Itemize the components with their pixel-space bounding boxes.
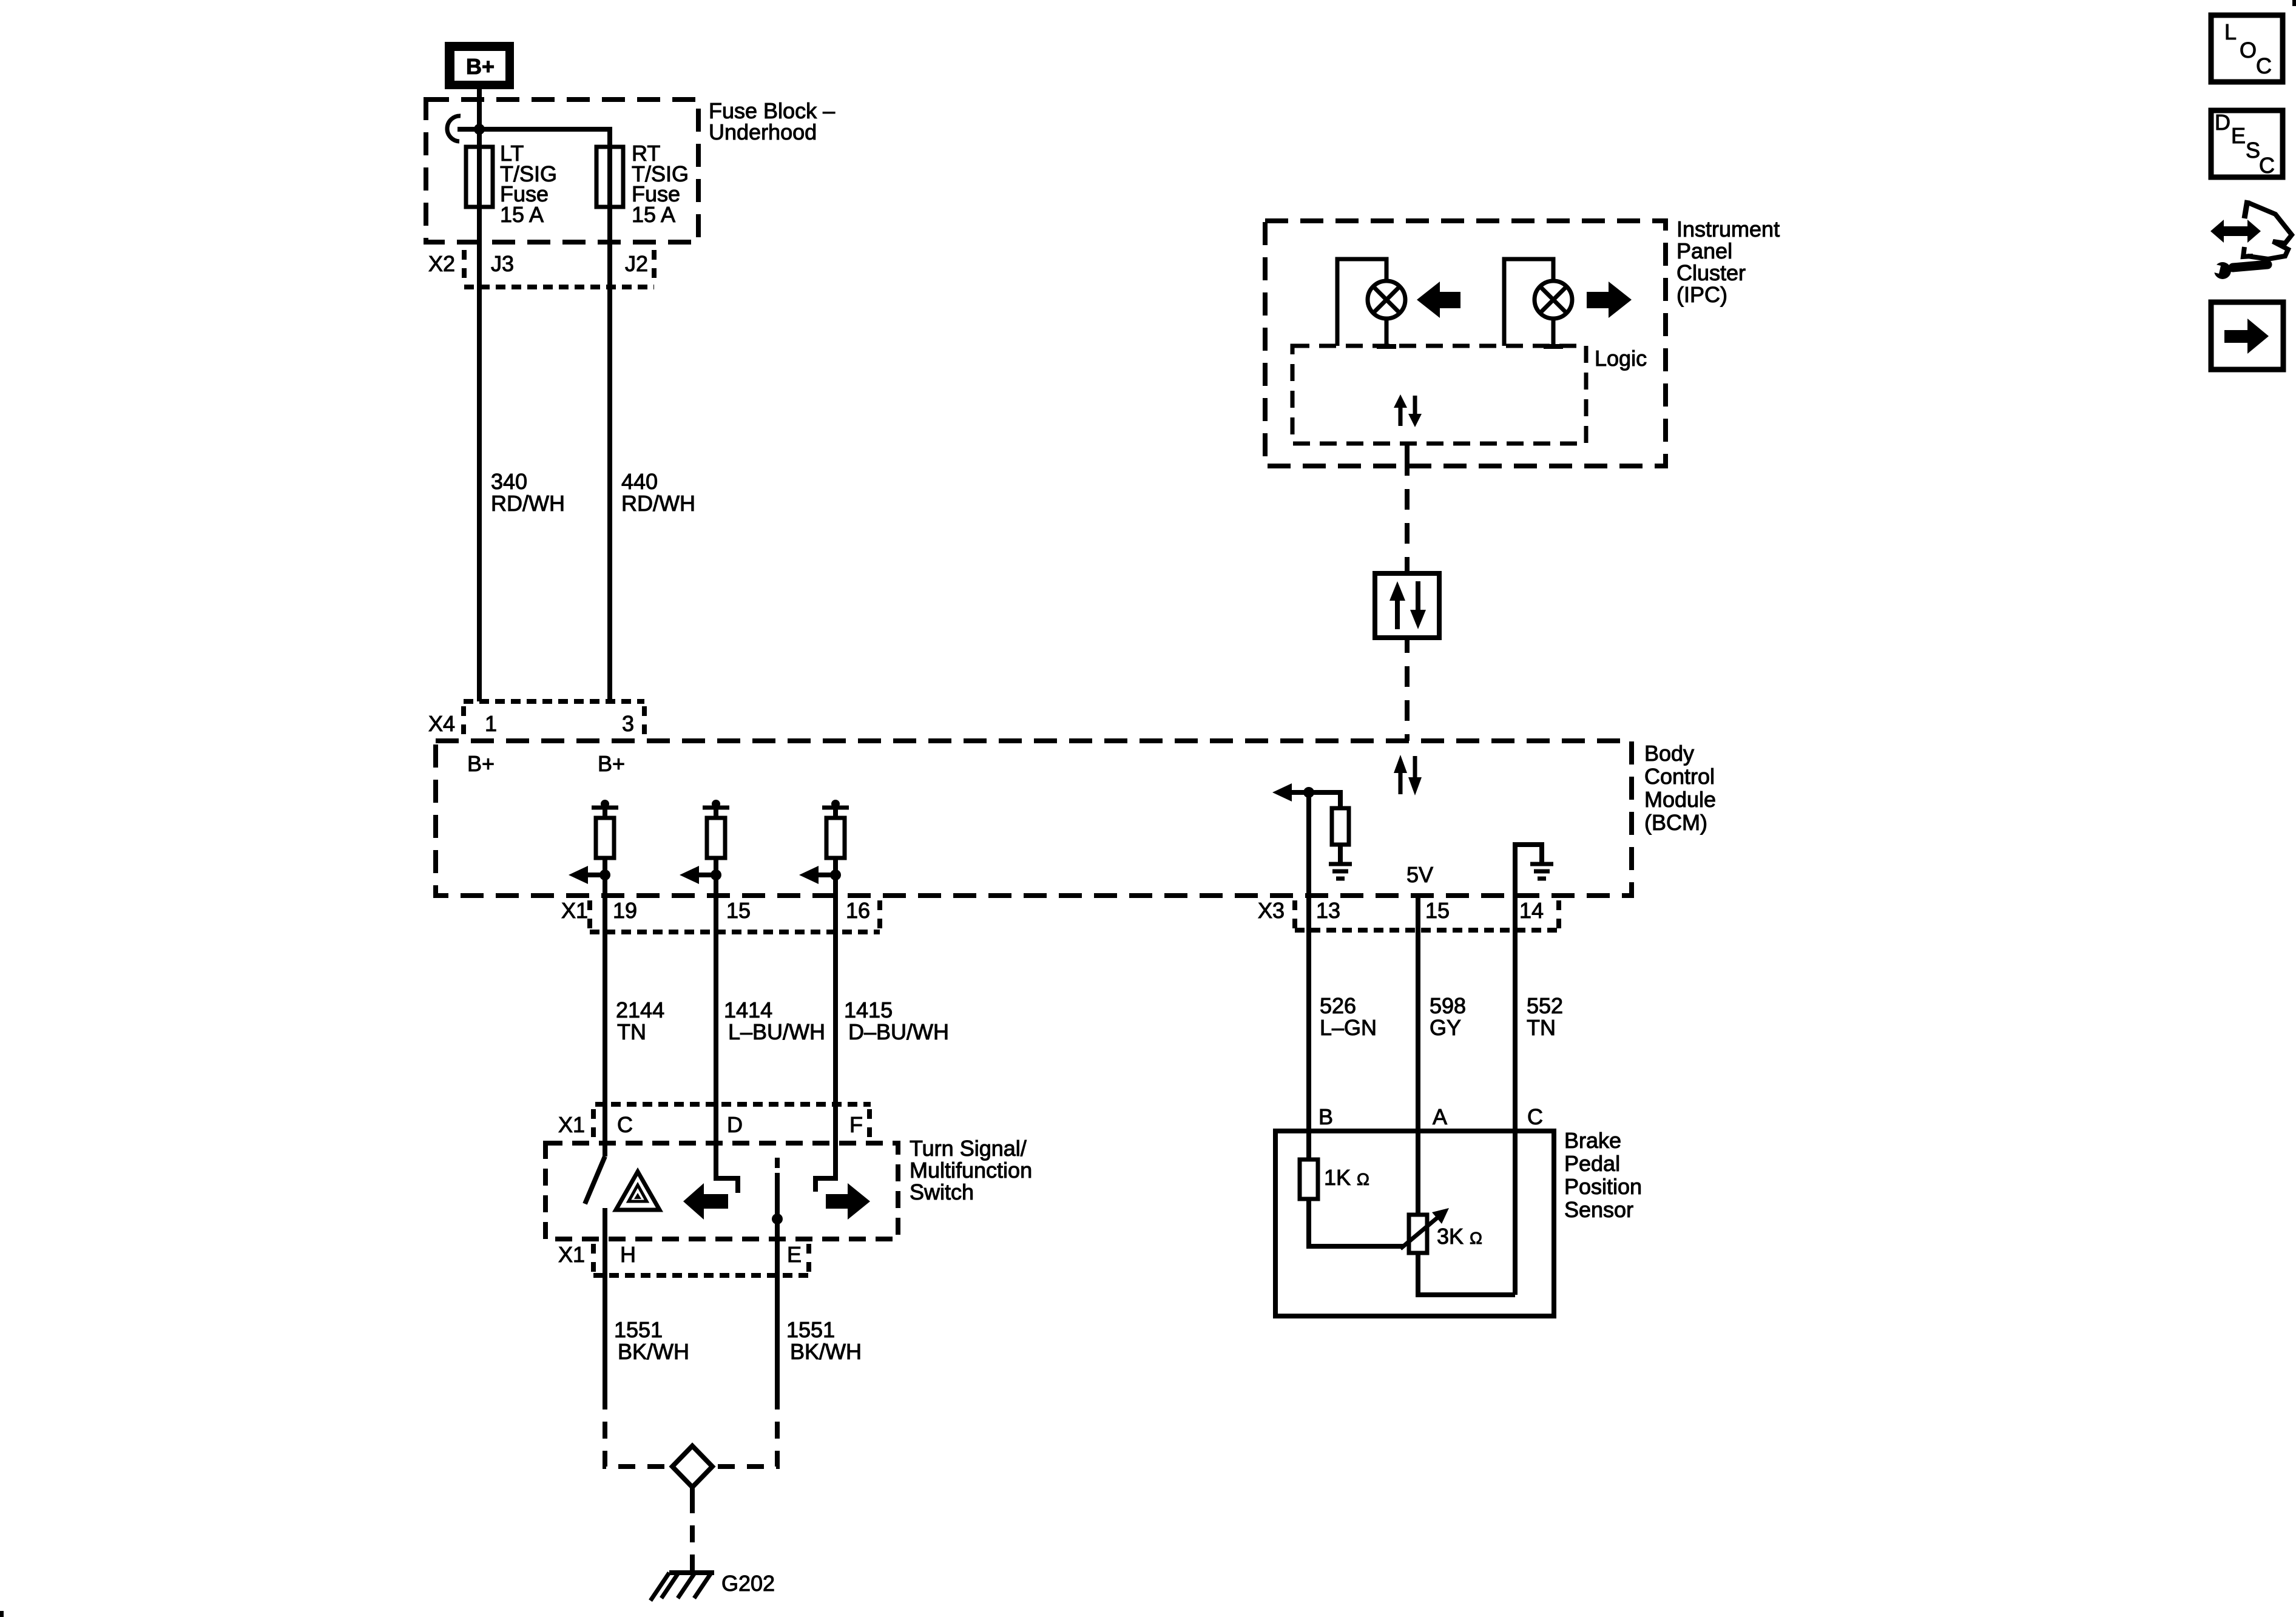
svg-text:X2: X2	[428, 251, 455, 276]
BCM output arrow node	[1272, 783, 1314, 896]
svg-text:E: E	[2231, 123, 2246, 148]
wire D contact	[716, 1143, 738, 1193]
right indicator arrow	[1587, 282, 1632, 318]
svg-text:(BCM): (BCM)	[1644, 810, 1707, 835]
ground G202	[650, 1571, 775, 1601]
connector X4 row	[428, 701, 644, 737]
wire 1414 L-BU/WH	[714, 896, 718, 1177]
right turn indicator lamp	[1504, 259, 1572, 346]
wire label 1414 L-BU/WH	[724, 998, 825, 1044]
svg-text:D: D	[727, 1112, 743, 1137]
wire label 1551 BK/WH left	[614, 1317, 689, 1364]
svg-text:J3: J3	[491, 251, 514, 276]
wire 526 L-GN	[1306, 896, 1311, 1131]
label Brake Pedal Position Sensor	[1564, 1128, 1642, 1222]
svg-text:440: 440	[621, 469, 658, 494]
fuse LT T/SIG 15A	[466, 147, 493, 207]
page mark bottom left	[0, 1611, 4, 1617]
svg-text:14: 14	[1519, 898, 1544, 923]
svg-text:GY: GY	[1430, 1015, 1461, 1040]
BCM internal ground left	[1329, 864, 1352, 879]
clip arc symbol	[447, 116, 461, 141]
label LT fuse	[500, 141, 557, 227]
pin label B+ right	[598, 751, 625, 776]
svg-text:19: 19	[613, 898, 637, 923]
serial data wire upper	[1405, 444, 1410, 573]
wire label 440 RD/WH	[621, 469, 695, 516]
wire label 1551 BK/WH right	[786, 1317, 862, 1364]
junction dot	[474, 124, 485, 135]
svg-text:TN: TN	[617, 1019, 646, 1044]
wire label 1415 D-BU/WH	[844, 998, 949, 1044]
splice diamond	[672, 1446, 712, 1487]
svg-text:A: A	[1433, 1104, 1447, 1129]
svg-text:Panel: Panel	[1676, 238, 1732, 263]
svg-text:552: 552	[1527, 993, 1563, 1018]
svg-text:Multifunction: Multifunction	[910, 1158, 1032, 1183]
pin label C	[1527, 1104, 1543, 1129]
svg-text:15 A: 15 A	[632, 202, 675, 227]
svg-text:B+: B+	[598, 751, 625, 776]
svg-text:X1: X1	[558, 1242, 585, 1267]
hazard triangle symbol	[616, 1172, 660, 1210]
label Logic	[1595, 346, 1647, 371]
svg-text:526: 526	[1320, 993, 1356, 1018]
svg-text:B+: B+	[467, 751, 495, 776]
svg-text:L: L	[2224, 19, 2237, 44]
serial data interface box	[1375, 573, 1439, 638]
label Instrument Panel Cluster (IPC)	[1676, 217, 1780, 307]
Body Control Module dashed box	[436, 741, 1632, 896]
left turn arrow	[683, 1183, 728, 1220]
svg-text:B+: B+	[466, 54, 495, 79]
svg-text:Pedal: Pedal	[1564, 1151, 1620, 1176]
svg-text:J2: J2	[625, 251, 648, 276]
svg-text:L–BU/WH: L–BU/WH	[728, 1019, 825, 1044]
icon connector service	[2204, 200, 2292, 279]
svg-text:Position: Position	[1564, 1174, 1642, 1199]
left indicator arrow	[1417, 282, 1460, 318]
pin label B	[1319, 1104, 1333, 1129]
label Fuse Block - Underhood	[709, 98, 835, 144]
svg-text:16: 16	[846, 898, 870, 923]
svg-text:TN: TN	[1527, 1015, 1556, 1040]
connector X1 row (BCM)	[561, 898, 880, 932]
logic serial arrows	[1394, 394, 1422, 427]
svg-text:Instrument: Instrument	[1676, 217, 1780, 241]
wire 2144 TN	[603, 896, 607, 1156]
connector X3 row	[1258, 898, 1559, 930]
B+ battery feed box	[445, 42, 514, 89]
wire 552 TN	[1513, 896, 1518, 1131]
BCM pull-up resistor 1	[569, 800, 618, 896]
svg-text:G202: G202	[721, 1571, 775, 1596]
svg-text:Underhood: Underhood	[709, 120, 817, 144]
svg-text:15 A: 15 A	[500, 202, 544, 227]
connector X2 row	[428, 250, 654, 287]
Fuse Block - Underhood dashed box	[426, 100, 698, 242]
serial data wire lower	[1405, 638, 1410, 741]
page mark top right	[2292, 0, 2296, 6]
svg-text:13: 13	[1316, 898, 1340, 923]
BCM internal ground right	[1515, 845, 1553, 896]
svg-text:Body: Body	[1644, 741, 1694, 766]
svg-text:598: 598	[1430, 993, 1466, 1018]
svg-text:Turn Signal/: Turn Signal/	[910, 1136, 1027, 1161]
wire label 340 RD/WH	[491, 469, 565, 516]
svg-text:B: B	[1319, 1104, 1333, 1129]
label 1K ohm	[1324, 1165, 1369, 1190]
icon forward arrow box	[2211, 302, 2283, 370]
wire F contact	[815, 1143, 836, 1192]
svg-text:X1: X1	[561, 898, 588, 923]
svg-text:L–GN: L–GN	[1320, 1015, 1377, 1040]
label Turn Signal Multifunction Switch	[910, 1136, 1032, 1204]
svg-text:BK/WH: BK/WH	[790, 1339, 862, 1364]
svg-text:RD/WH: RD/WH	[491, 491, 565, 516]
pin label B+ left	[467, 751, 495, 776]
connector X1 row (switch bottom)	[558, 1242, 809, 1275]
label RT fuse	[632, 141, 689, 227]
svg-text:RD/WH: RD/WH	[621, 491, 695, 516]
svg-text:D–BU/WH: D–BU/WH	[848, 1019, 949, 1044]
svg-text:Switch: Switch	[910, 1180, 974, 1204]
wire E 1551 BK/WH	[714, 1239, 777, 1467]
wire B+ to fuses	[458, 89, 610, 701]
svg-text:Sensor: Sensor	[1564, 1197, 1633, 1222]
svg-text:1415: 1415	[844, 998, 893, 1022]
label 5V	[1406, 862, 1433, 887]
svg-text:5V: 5V	[1406, 862, 1433, 887]
fuse RT T/SIG 15A	[596, 147, 623, 207]
svg-text:Logic: Logic	[1595, 346, 1647, 371]
svg-text:1: 1	[485, 711, 497, 736]
label Body Control Module (BCM)	[1644, 741, 1716, 835]
BCM pull-up resistor 3	[799, 800, 849, 896]
potentiometer 3K	[1400, 1131, 1515, 1295]
wire 1415 D-BU/WH	[833, 896, 838, 1177]
svg-text:Control: Control	[1644, 764, 1715, 789]
svg-text:E: E	[787, 1242, 802, 1267]
wire label 552 TN	[1527, 993, 1563, 1040]
svg-text:Brake: Brake	[1564, 1128, 1621, 1153]
left turn indicator lamp	[1337, 259, 1405, 346]
label 3K ohm	[1437, 1224, 1482, 1249]
svg-text:1551: 1551	[614, 1317, 663, 1342]
svg-text:2144: 2144	[616, 998, 664, 1022]
icon DESC box	[2211, 110, 2283, 178]
svg-text:X3: X3	[1258, 898, 1285, 923]
svg-text:C: C	[2259, 153, 2275, 178]
svg-text:C: C	[2256, 53, 2272, 78]
Turn Signal/Multifunction Switch dashed box	[545, 1143, 898, 1239]
wire E stub	[772, 1158, 783, 1239]
Instrument Panel Cluster dashed box	[1265, 221, 1666, 466]
svg-text:Cluster: Cluster	[1676, 260, 1746, 285]
switch blade	[585, 1156, 605, 1239]
wire label 526 L-GN	[1320, 993, 1377, 1040]
connector X1 row (switch top)	[558, 1104, 871, 1137]
svg-text:(IPC): (IPC)	[1676, 282, 1727, 307]
svg-text:3: 3	[622, 711, 634, 736]
svg-text:C: C	[1527, 1104, 1543, 1129]
wire label 2144 TN	[616, 998, 664, 1044]
svg-text:C: C	[617, 1112, 633, 1137]
svg-text:X1: X1	[558, 1112, 585, 1137]
svg-text:1551: 1551	[786, 1317, 835, 1342]
Logic dashed box	[1292, 346, 1586, 444]
svg-text:S: S	[2246, 138, 2260, 163]
svg-text:340: 340	[491, 469, 527, 494]
svg-text:D: D	[2215, 110, 2230, 135]
BCM internal resistor to ground	[1309, 792, 1349, 863]
svg-text:O: O	[2240, 38, 2257, 62]
icon LOC box	[2211, 15, 2283, 82]
svg-text:15: 15	[726, 898, 751, 923]
BCM pull-up resistor 2	[680, 800, 729, 896]
wire 598 GY	[1416, 896, 1420, 1131]
svg-text:H: H	[620, 1242, 636, 1267]
svg-text:1414: 1414	[724, 998, 772, 1022]
wire label 598 GY	[1430, 993, 1466, 1040]
svg-text:Module: Module	[1644, 787, 1716, 812]
Brake Pedal Position Sensor box	[1275, 1131, 1554, 1316]
svg-text:BK/WH: BK/WH	[618, 1339, 689, 1364]
wire splice to ground	[690, 1487, 695, 1571]
pin label A	[1433, 1104, 1447, 1129]
svg-text:X4: X4	[428, 711, 455, 736]
BCM serial arrows	[1394, 755, 1422, 795]
right turn arrow	[826, 1183, 870, 1220]
svg-text:15: 15	[1425, 898, 1450, 923]
svg-text:F: F	[849, 1112, 863, 1137]
wire H 1551 BK/WH	[605, 1239, 670, 1467]
resistor 1K	[1300, 1131, 1403, 1246]
